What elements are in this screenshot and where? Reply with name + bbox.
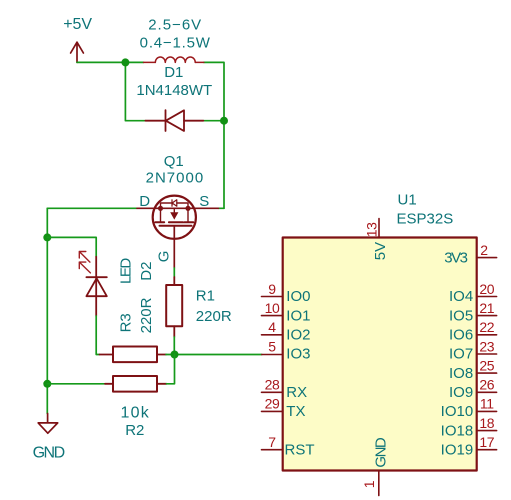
svg-text:IO10: IO10 (441, 403, 474, 420)
svg-text:17: 17 (479, 434, 494, 450)
svg-text:1: 1 (361, 480, 377, 488)
pin 10 IO1 (262, 315, 283, 317)
pin 17 IO19 (477, 449, 497, 451)
svg-text:9: 9 (268, 281, 276, 297)
wire diode right to vertical (203, 120, 224, 122)
svg-text:IO2: IO2 (286, 327, 310, 344)
pin 9 IO0 (262, 296, 283, 298)
svg-text:TX: TX (286, 403, 305, 420)
svg-text:2.5−6V: 2.5−6V (148, 17, 202, 34)
junction dots inside MOSFET (158, 206, 163, 211)
transistor Q2 MOSFET body (137, 196, 218, 239)
pin 25 IO8 (477, 372, 497, 374)
svg-text:IO7: IO7 (449, 346, 473, 363)
junction diode row (220, 117, 228, 125)
svg-text:+5V: +5V (63, 16, 92, 33)
svg-text:U1: U1 (398, 191, 417, 208)
gate pin wire red (173, 226, 175, 268)
transistor arrow (170, 212, 178, 219)
pin 28 RX (262, 391, 283, 393)
wire +5V to junction and inductor (77, 61, 144, 63)
pin 22 IO6 (477, 334, 497, 336)
svg-text:29: 29 (265, 396, 280, 412)
svg-text:23: 23 (479, 338, 494, 354)
resistor R3 (100, 347, 167, 363)
svg-text:IO3: IO3 (286, 346, 310, 363)
svg-text:D1: D1 (164, 64, 183, 81)
svg-text:10k: 10k (121, 404, 150, 421)
svg-text:20: 20 (479, 281, 494, 297)
pin 7 RST (262, 449, 283, 451)
svg-text:D: D (139, 193, 150, 210)
pin 21 IO5 (477, 315, 497, 317)
svg-text:2: 2 (480, 242, 488, 258)
left rail: junction to LED branch (46, 208, 48, 413)
inductor L1 (144, 57, 204, 62)
pin 4 IO2 (262, 334, 283, 336)
diode D1 (145, 110, 203, 131)
pin 18 IO18 (477, 430, 497, 432)
pin 26 IO9 (477, 391, 497, 393)
svg-text:IO18: IO18 (441, 422, 474, 439)
svg-text:220R: 220R (196, 308, 232, 325)
junction R3 R1 (171, 351, 179, 359)
svg-text:ESP32S: ESP32S (397, 211, 454, 228)
wire to LED top (47, 237, 96, 256)
svg-text:4: 4 (268, 319, 276, 335)
svg-text:5V: 5V (372, 242, 389, 260)
svg-text:IO4: IO4 (449, 288, 473, 305)
pin 20 IO4 (477, 296, 497, 298)
svg-text:S: S (199, 193, 209, 210)
svg-text:IO5: IO5 (449, 307, 473, 324)
svg-text:2N7000: 2N7000 (146, 170, 205, 187)
svg-text:5: 5 (268, 338, 276, 354)
svg-text:IO0: IO0 (286, 288, 310, 305)
svg-text:IO19: IO19 (441, 441, 474, 458)
svg-text:R1: R1 (196, 287, 215, 304)
ground symbol (38, 414, 58, 434)
LED arrow 2 (79, 262, 90, 273)
svg-text:26: 26 (479, 377, 494, 393)
resistor R1 (166, 277, 182, 337)
wire LED bottom to R3 (96, 316, 99, 355)
svg-text:RX: RX (286, 384, 307, 401)
pin 2 3V3 (477, 257, 497, 259)
svg-text:28: 28 (265, 377, 280, 393)
wire junction down to diode row (125, 62, 145, 120)
wire D pin to left column (47, 207, 137, 209)
svg-text:3V3: 3V3 (444, 250, 467, 267)
svg-text:LED: LED (118, 258, 135, 284)
pin 5 IO3 (262, 354, 283, 356)
svg-text:R3: R3 (118, 313, 135, 332)
wire S pin stub (218, 207, 224, 209)
junction left lower (43, 380, 51, 388)
svg-text:1N4148WT: 1N4148WT (136, 82, 212, 99)
LED D2 (86, 257, 106, 316)
svg-text:IO8: IO8 (449, 365, 473, 382)
svg-text:GND: GND (373, 437, 390, 468)
svg-text:IO6: IO6 (449, 327, 473, 344)
pin 13 top (378, 219, 380, 238)
svg-text:22: 22 (479, 319, 494, 335)
svg-text:G: G (156, 251, 173, 263)
IC U1 body (283, 238, 477, 471)
wire R1 bottom to junction (173, 337, 175, 355)
pin 11 IO10 (477, 410, 497, 412)
LED arrow 1 (79, 252, 90, 263)
junction left upper (43, 233, 51, 241)
svg-text:RST: RST (285, 441, 315, 458)
pin 23 IO7 (477, 353, 497, 355)
resistor R2 (105, 376, 167, 392)
svg-text:D2: D2 (138, 262, 155, 281)
pin 1 bottom (378, 471, 380, 496)
svg-text:0.4−1.5W: 0.4−1.5W (140, 35, 211, 52)
wire R2 left (47, 383, 105, 385)
svg-text:220R: 220R (138, 297, 155, 333)
svg-text:11: 11 (480, 396, 494, 412)
svg-text:13: 13 (363, 222, 379, 237)
wire inductor right to corner and down to S row (204, 62, 224, 208)
power arrow symbol (71, 42, 84, 62)
svg-text:IO1: IO1 (286, 307, 310, 324)
svg-text:IO9: IO9 (449, 384, 473, 401)
junction top (121, 58, 129, 66)
wire R2 right up to junction (167, 355, 175, 384)
svg-text:7: 7 (268, 434, 276, 450)
svg-text:21: 21 (479, 300, 494, 316)
svg-text:R2: R2 (125, 422, 144, 439)
svg-text:18: 18 (479, 415, 494, 431)
svg-text:GND: GND (33, 445, 65, 462)
svg-text:10: 10 (265, 300, 280, 316)
svg-text:25: 25 (479, 357, 494, 373)
svg-text:Q1: Q1 (164, 153, 184, 170)
wire gate to R1 (173, 268, 175, 277)
wire R3 to IO3 pin (166, 354, 262, 356)
pin 29 TX (262, 410, 283, 412)
